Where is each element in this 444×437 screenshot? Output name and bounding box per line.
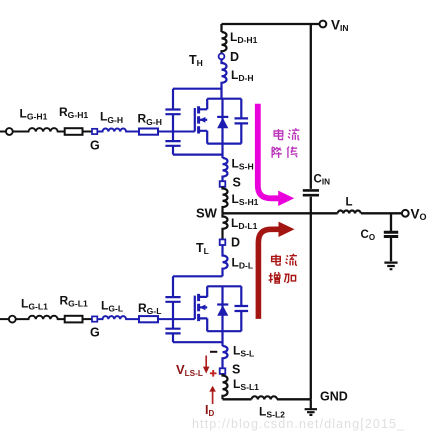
svg-text:D: D: [231, 236, 240, 250]
wire R to G low: [83, 318, 93, 320]
capacitor Cds low: [235, 306, 249, 311]
capacitor Co: [384, 232, 398, 236]
svg-text:LD-H1: LD-H1: [230, 30, 258, 45]
arrow VLS-L down: [205, 356, 207, 368]
arrow current increase red: [258, 229, 279, 319]
wire gate to mosfet high: [158, 131, 195, 133]
wire VIN rail right vertical: [310, 24, 312, 399]
diode body high triangle: [217, 118, 228, 129]
wire box top link low: [173, 275, 223, 277]
mosfet source stub high: [199, 131, 208, 144]
inductor LS-L: [223, 346, 228, 368]
capacitor Cgs low plates: [165, 329, 180, 334]
wire gate stub left high: [0, 131, 6, 133]
resistor RG-L: [139, 316, 158, 322]
svg-text:LG-H1: LG-H1: [20, 107, 48, 122]
inductor LD-L: [223, 245, 228, 276]
node S pin high: [220, 181, 226, 187]
svg-text:S: S: [232, 363, 240, 377]
mosfet source stub low: [199, 318, 208, 331]
char dian magenta: [274, 129, 283, 140]
char liu red: [286, 254, 297, 266]
svg-text:LG-L1: LG-L1: [21, 297, 48, 312]
inductor LD-H: [222, 59, 227, 98]
inductor LD-H1: [222, 32, 227, 54]
svg-text:D: D: [230, 50, 239, 64]
capacitor CIN: [303, 190, 319, 195]
node D pin high-side: [219, 54, 225, 60]
mosfet body arrow low: [200, 305, 206, 311]
svg-text:RG-H1: RG-H1: [59, 105, 88, 120]
ground GND: [305, 399, 317, 415]
inductor LG-H1: [13, 128, 65, 131]
svg-text:LD-H: LD-H: [231, 68, 254, 83]
svg-text:RG-L1: RG-L1: [60, 294, 88, 309]
node S pin low: [220, 368, 226, 374]
terminal Vo: [402, 210, 409, 217]
mosfet body stub low: [199, 306, 208, 308]
svg-text:http://blog.csdn.net/dlang[201: http://blog.csdn.net/dlang[2015_: [192, 417, 405, 431]
wire box bottom link high: [173, 154, 223, 156]
svg-text:LG-L: LG-L: [101, 299, 123, 314]
capacitor Cds high: [235, 118, 249, 123]
svg-text:TL: TL: [196, 241, 209, 256]
wire gate to mosfet low: [158, 318, 195, 320]
node D pin low: [220, 239, 226, 245]
svg-text:LS-L1: LS-L1: [233, 377, 259, 392]
char dian red: [272, 255, 281, 266]
diode body high bar: [217, 116, 228, 118]
svg-text:LD-L: LD-L: [232, 256, 254, 271]
svg-text:RG-L: RG-L: [138, 301, 161, 316]
box outline low: [207, 286, 241, 331]
capacitor Cgd high line: [172, 89, 174, 155]
svg-text:ID: ID: [205, 403, 214, 418]
char jia red: [285, 274, 296, 282]
inductor L: [338, 211, 361, 214]
svg-text:LD-L1: LD-L1: [231, 216, 258, 231]
svg-text:L: L: [346, 197, 353, 209]
mosfet drain stub high: [199, 99, 208, 110]
wire bottom GND: [223, 398, 311, 400]
char zeng red: [269, 272, 280, 283]
svg-text:LG-H: LG-H: [100, 110, 123, 125]
ground Vo: [384, 263, 397, 270]
inductor LS-L1: [223, 374, 228, 399]
svg-text:G: G: [90, 139, 100, 153]
inductor LS-H1: [223, 187, 228, 214]
mosfet gate bar high: [194, 108, 196, 132]
arrow current decrease magenta: [258, 104, 279, 199]
resistor RG-H: [139, 129, 158, 135]
text dianliu zengjia red: [269, 254, 297, 283]
mosfet drain stub low: [199, 286, 208, 297]
svg-text:VO: VO: [411, 207, 427, 223]
svg-text:LS-H: LS-H: [232, 157, 254, 172]
diode body low bar: [217, 303, 228, 305]
svg-text:LS-L: LS-L: [233, 344, 254, 359]
svg-text:VIN: VIN: [331, 18, 349, 34]
capacitor Cgd low line: [172, 276, 174, 342]
wire box bottom link low: [173, 341, 223, 343]
diode body low triangle: [217, 305, 228, 316]
char di magenta: [287, 147, 297, 158]
resistor RG-L1: [65, 316, 83, 323]
inductor LD-L1: [223, 213, 228, 239]
svg-text:CO: CO: [361, 229, 376, 242]
svg-text:SW: SW: [196, 205, 218, 220]
wire Co branch: [390, 213, 392, 261]
svg-text:GND: GND: [320, 390, 348, 404]
wire R to G high: [83, 131, 93, 133]
arrow ID up: [212, 391, 214, 404]
svg-text:VLS-L: VLS-L: [176, 362, 203, 378]
mosfet channel bar low: [197, 294, 200, 321]
wire box top link high: [173, 88, 223, 90]
mosfet body arrow high: [200, 117, 206, 123]
node G pin low: [92, 316, 97, 321]
svg-text:RG-H: RG-H: [138, 112, 162, 127]
wire top rail VIN: [222, 24, 320, 32]
char liu magenta: [288, 128, 299, 140]
capacitor Cgd high plates: [165, 110, 180, 115]
mosfet gate bar low: [194, 296, 196, 320]
mosfet TH model: [165, 89, 248, 155]
inductor LG-L: [97, 316, 139, 319]
capacitor Cgd low plates: [165, 297, 180, 302]
svg-text:TH: TH: [189, 53, 203, 68]
text dianliu jiangdi magenta: [272, 128, 299, 158]
resistor RG-H1: [65, 128, 83, 135]
inductor LG-L1: [16, 316, 65, 319]
svg-text:G: G: [90, 326, 100, 340]
mosfet body stub high: [199, 119, 208, 121]
terminal VIN: [320, 21, 327, 28]
svg-text:S: S: [233, 176, 241, 190]
label minus VLS-L: [210, 351, 217, 353]
inductor LS-H: [223, 158, 228, 181]
terminal gate low: [9, 316, 16, 323]
svg-text:LS-H1: LS-H1: [232, 192, 259, 207]
label plus VLS-L: [210, 370, 217, 377]
inductor LS-L2: [252, 396, 278, 399]
terminal gate high: [6, 128, 13, 135]
capacitor Cgs high plates: [165, 141, 180, 146]
wire gate stub left low: [0, 318, 9, 320]
wire SW line: [223, 212, 403, 214]
svg-text:CIN: CIN: [314, 174, 331, 187]
node G pin high: [92, 129, 97, 134]
box outline high: [207, 99, 241, 144]
mosfet channel bar high: [197, 106, 200, 133]
wire center through box high: [221, 99, 223, 158]
char jiang magenta: [272, 147, 282, 158]
inductor LG-H: [97, 129, 139, 132]
wire center through box low: [221, 286, 223, 346]
mosfet TL model: [165, 276, 248, 342]
